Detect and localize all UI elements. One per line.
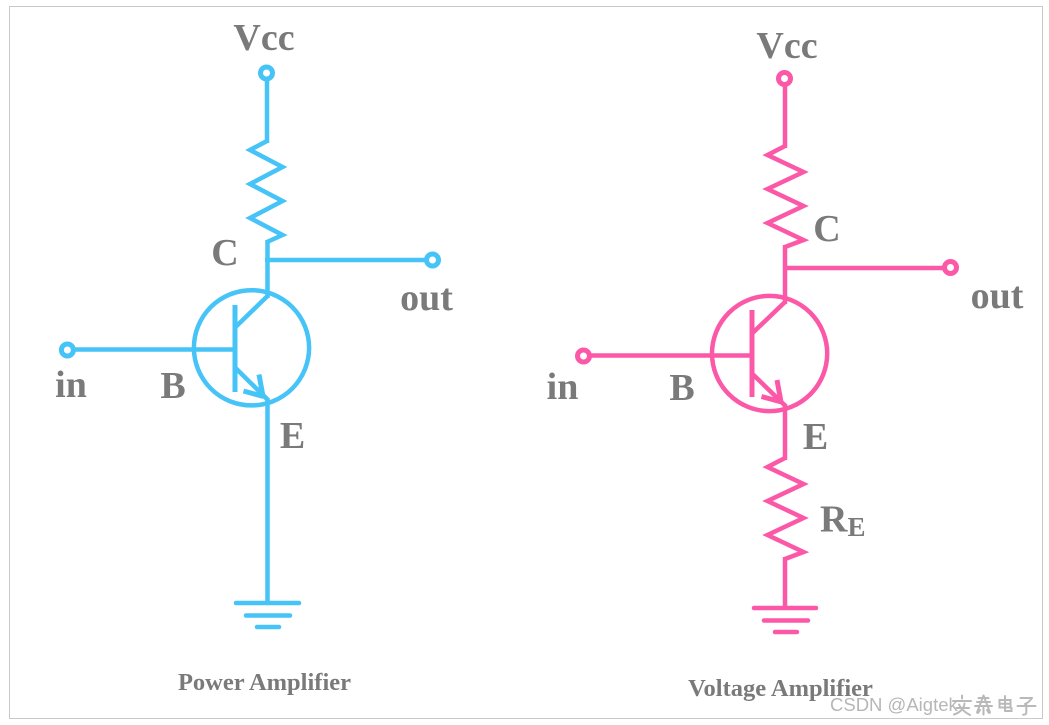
svg-text:B: B: [160, 365, 185, 407]
svg-text:E: E: [803, 416, 828, 458]
svg-text:Power Amplifier: Power Amplifier: [178, 669, 351, 696]
ground (left): [236, 603, 299, 627]
wire Vcc to resistor RC (left): [265, 79, 270, 143]
svg-text:C: C: [211, 232, 238, 274]
resistor RC (left): [250, 141, 283, 242]
svg-text:CSDN @Aigtek: CSDN @Aigtek: [830, 694, 959, 715]
svg-text:out: out: [400, 277, 453, 319]
svg-text:E: E: [280, 415, 305, 457]
wire resistor RE to ground (right): [783, 557, 788, 608]
wire Vcc to resistor RC (right): [783, 84, 788, 148]
svg-text:Vcc: Vcc: [756, 25, 817, 67]
wire in terminal to base (left): [72, 347, 235, 352]
transistor Q1 (left, NPN): [194, 290, 309, 405]
svg-text:in: in: [547, 366, 579, 408]
resistor RC (right): [768, 146, 804, 247]
wire resistor RC to collector node C (left): [265, 240, 270, 298]
svg-text:RE: RE: [820, 499, 865, 543]
terminal Vcc (left circuit): [261, 67, 273, 79]
wire emitter to resistor RE (right): [783, 404, 788, 460]
terminal out (right): [945, 262, 957, 274]
svg-text:C: C: [813, 208, 840, 250]
wire in terminal to base (right): [588, 353, 752, 358]
svg-text:B: B: [669, 367, 694, 409]
terminal Vcc (right circuit): [779, 73, 791, 85]
terminal out (left): [427, 254, 439, 266]
terminal in (right): [578, 350, 590, 362]
wire emitter to ground (left): [265, 398, 270, 603]
svg-text:Vcc: Vcc: [233, 17, 294, 59]
wire node C to out terminal (right): [783, 266, 945, 271]
terminal in (left): [61, 344, 73, 356]
wire resistor RC to collector node C (right): [783, 245, 788, 304]
ground (right): [754, 608, 816, 632]
watermark CJK characters: [953, 696, 1036, 716]
wire node C to out terminal (left): [265, 258, 427, 263]
transistor Q2 (right, NPN): [712, 296, 827, 411]
svg-text:out: out: [971, 275, 1024, 317]
resistor RE (right): [768, 458, 804, 559]
svg-text:in: in: [55, 364, 87, 406]
